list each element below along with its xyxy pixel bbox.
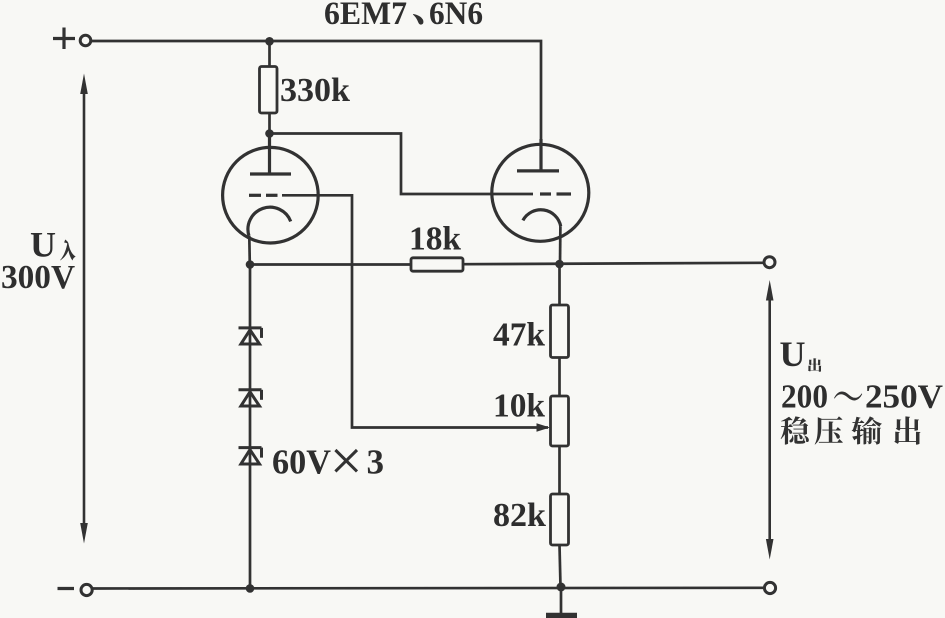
tube type label 6EM7、6N6 (324, 0, 483, 32)
svg-text:18k: 18k (409, 221, 461, 258)
svg-text:250V: 250V (865, 379, 943, 416)
zener diode D2 (239, 390, 262, 406)
label stabilized output (Chinese) (781, 416, 921, 444)
V2 cathode lead (559, 226, 562, 264)
V2 grid dashes (540, 192, 571, 195)
svg-text:47k: 47k (493, 317, 545, 354)
output voltage span arrow (768, 295, 771, 545)
resistor 82k (551, 494, 569, 545)
node: divider / bottom rail (557, 583, 566, 592)
wire: left branch (zener string) (249, 265, 252, 589)
resistor 330k (260, 67, 278, 114)
resistor 47k (551, 305, 569, 358)
wire: V1 plate node to V2 grid (270, 134, 534, 195)
zener diode D1 (239, 328, 262, 344)
V2 cathode (523, 210, 561, 227)
V2 plate (517, 139, 559, 171)
node: V1 cathode junction (246, 260, 255, 269)
node: plate / grid-link junction (265, 129, 274, 138)
wire 82k to bottom rail (560, 545, 561, 587)
wire: V1 grid to 10k wiper (282, 195, 548, 427)
V1 grid (dashed) (249, 194, 278, 197)
wire: bottom negative rail (93, 586, 763, 589)
wire 330k top lead (268, 41, 271, 67)
output - terminal (764, 582, 775, 593)
wire 330k bottom lead (268, 113, 271, 134)
label U_in (30, 225, 75, 265)
svg-text:330k: 330k (280, 72, 350, 109)
wiper arrowhead (537, 423, 551, 431)
ground (546, 587, 577, 616)
svg-text:60V: 60V (272, 443, 331, 482)
resistor 18k (411, 258, 463, 271)
svg-text:10k: 10k (493, 388, 545, 425)
svg-text:U: U (780, 334, 806, 374)
svg-text:3: 3 (367, 443, 385, 482)
V1 cathode lead (248, 236, 251, 265)
input voltage span arrow (83, 90, 86, 525)
resistor 10k (pot) (551, 396, 569, 446)
V1 cathode (248, 207, 291, 236)
svg-text:82k: 82k (493, 497, 546, 534)
label U_out (780, 334, 822, 374)
svg-text:6N6: 6N6 (429, 0, 483, 32)
V1 plate (250, 134, 291, 175)
wire: cathode rail left of 18k (250, 263, 411, 266)
node: V2 cathode junction (555, 260, 564, 269)
svg-text:6EM7: 6EM7 (324, 0, 407, 32)
triode V1 envelope (223, 147, 319, 243)
wire: V2 cathode node down to 47k (558, 264, 561, 305)
svg-text:300V: 300V (1, 259, 75, 296)
plus polarity mark (53, 28, 75, 50)
output + terminal (764, 257, 775, 268)
label 200~250V (781, 379, 943, 416)
minus polarity mark (58, 587, 75, 590)
wire: cathode rail right of 18k to output (463, 263, 763, 264)
node: zener string / bottom rail (246, 584, 255, 593)
wire: top positive rail (91, 41, 541, 171)
input - terminal (81, 584, 92, 595)
input + terminal (80, 35, 91, 46)
wire 47k-10k (558, 358, 561, 397)
node: top rail / 330k junction (265, 37, 274, 46)
triode V2 envelope (492, 144, 589, 241)
zener diode D3 (239, 448, 262, 464)
svg-text:200: 200 (781, 379, 828, 416)
wire 10k-82k (558, 446, 561, 494)
